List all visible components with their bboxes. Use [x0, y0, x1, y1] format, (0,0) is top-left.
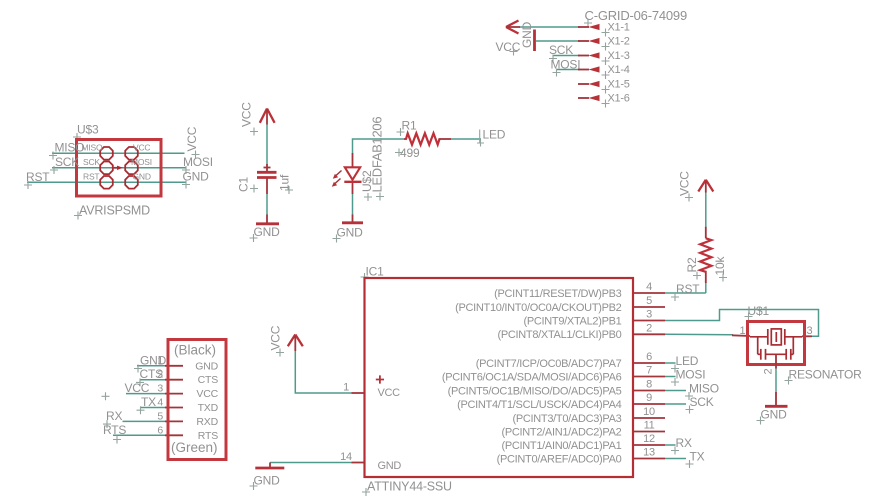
svg-text:R2: R2	[685, 257, 699, 272]
pin 3 lead	[802, 335, 812, 337]
svg-text:VCC: VCC	[125, 381, 150, 395]
svg-text:5: 5	[157, 410, 163, 422]
svg-text:RTS: RTS	[103, 423, 126, 437]
svg-text:GND: GND	[254, 474, 281, 488]
pin 13 PA0	[634, 447, 666, 459]
value AVRISPSMD	[74, 204, 150, 220]
emission arrow 1	[336, 171, 342, 176]
svg-text:SCK: SCK	[83, 157, 100, 167]
pin 3 VCC	[165, 393, 183, 395]
svg-text:4: 4	[646, 281, 652, 293]
pin 1 VCC	[343, 382, 364, 394]
value ATTINY44-SSU	[362, 480, 452, 497]
net label SCK (pin9)	[686, 395, 714, 414]
wire LED cathode to GND	[352, 194, 354, 215]
net label MISO (pin8)	[685, 382, 719, 401]
pin 12 PA1	[634, 433, 666, 445]
pin 2 lead	[775, 354, 777, 368]
pin 14 GND	[340, 451, 364, 463]
pad 6 GND	[125, 176, 138, 189]
svg-text:13: 13	[643, 447, 655, 459]
net label MOSI (pin7)	[671, 368, 705, 387]
wire net SCK pin9	[665, 403, 686, 405]
svg-text:3: 3	[646, 309, 652, 321]
net label CTS	[136, 367, 163, 386]
wire net RX row5	[123, 420, 169, 422]
svg-text:10: 10	[643, 406, 655, 418]
ground GND (LED)	[333, 215, 364, 243]
wire net CTS row2	[140, 379, 168, 381]
net label VCC (rotated)	[185, 126, 200, 158]
svg-text:X1-4: X1-4	[608, 64, 630, 76]
svg-text:RTS: RTS	[198, 430, 218, 442]
net XTAL2 wire pin3 to resonator pin3	[665, 310, 819, 337]
svg-text:LEDFAB1206: LEDFAB1206	[370, 117, 385, 193]
svg-text:1: 1	[343, 382, 349, 394]
net label MOSI	[182, 155, 213, 174]
net label MISO	[49, 141, 84, 160]
supply VCC (arrow, R2)	[678, 171, 714, 202]
svg-text:RXD: RXD	[196, 416, 218, 428]
svg-text:MOSI: MOSI	[676, 368, 706, 382]
resonator U$1	[732, 304, 862, 385]
wire net TX pin13	[665, 458, 686, 460]
net label LED (pin6)	[671, 354, 699, 373]
net label SCK	[50, 155, 79, 174]
svg-text:8: 8	[646, 379, 652, 391]
capacitor C1	[237, 164, 294, 194]
pin 5 PB2	[634, 295, 666, 307]
wire net LED pin6	[665, 362, 676, 364]
pin 7 PA6	[634, 365, 666, 377]
svg-text:AVRISPSMD: AVRISPSMD	[79, 204, 150, 218]
svg-text:GND: GND	[195, 360, 218, 372]
svg-text:GND: GND	[761, 408, 788, 422]
svg-text:(PCINT3/T0/ADC3)PA3: (PCINT3/T0/ADC3)PA3	[512, 413, 621, 425]
svg-text:RX: RX	[106, 409, 122, 423]
pin X1-2	[578, 36, 630, 51]
wire net MISO pin8	[665, 390, 686, 392]
wire C1 to GND	[266, 194, 268, 215]
svg-text:(Black): (Black)	[174, 343, 216, 358]
svg-text:VCC: VCC	[269, 325, 283, 350]
plus mark VCC	[376, 375, 384, 383]
svg-text:U$1: U$1	[748, 304, 770, 318]
pin 6 RTS	[165, 434, 183, 436]
svg-text:(PCINT9/XTAL2)PB1: (PCINT9/XTAL2)PB1	[523, 316, 621, 328]
pad 1 MISO	[100, 147, 113, 160]
pin 9 PA4	[634, 392, 666, 404]
svg-text:RST: RST	[676, 282, 700, 296]
net label TX	[137, 395, 157, 414]
svg-text:12: 12	[643, 433, 655, 445]
pin 1 lead	[732, 334, 750, 337]
svg-text:5: 5	[646, 295, 652, 307]
pin arrow row2	[113, 166, 123, 170]
wire VCC to pin 1	[295, 351, 351, 393]
net label VCC	[102, 381, 150, 400]
LED triangle	[345, 167, 360, 180]
svg-text:RST: RST	[26, 170, 50, 184]
svg-text:SCK: SCK	[55, 155, 79, 169]
LED U$2 LEDFAB1206	[332, 117, 385, 201]
pin 6 PA7	[634, 351, 666, 363]
svg-text:10k: 10k	[713, 256, 727, 276]
pin 1 GND	[165, 365, 183, 367]
ground GND (resonator)	[757, 392, 788, 425]
wire R2 top to VCC	[705, 192, 707, 227]
svg-text:IC1: IC1	[366, 265, 385, 279]
svg-text:GND: GND	[254, 225, 281, 239]
net label RST	[24, 170, 50, 189]
supply VCC (arrow, C1)	[240, 102, 275, 136]
svg-text:R1: R1	[402, 119, 417, 133]
svg-text:TX: TX	[141, 395, 156, 409]
net label RX (pin12)	[671, 436, 692, 455]
pin 4 TXD	[165, 407, 183, 409]
value RESONATOR	[785, 368, 863, 385]
net label GND	[182, 170, 209, 189]
svg-text:CTS: CTS	[198, 374, 219, 386]
supply VCC (rotated arrow, X1-1)	[496, 21, 521, 56]
ground GND (pin 14)	[250, 463, 285, 491]
svg-text:RX: RX	[676, 436, 692, 450]
net label MOSI	[551, 58, 581, 77]
svg-text:GND: GND	[337, 226, 364, 240]
svg-text:TX: TX	[690, 450, 705, 464]
pin 3 PB1	[634, 309, 666, 321]
pin 4 PB3	[634, 281, 666, 293]
svg-text:2: 2	[763, 369, 775, 375]
wire net SCK to X1-3	[553, 55, 580, 57]
wire net RX pin12	[665, 444, 676, 446]
svg-text:VCC: VCC	[133, 143, 150, 153]
wire VCC to C1	[266, 125, 268, 166]
svg-text:VCC: VCC	[678, 171, 692, 196]
svg-text:GND: GND	[378, 460, 402, 472]
svg-text:(Green): (Green)	[171, 440, 218, 455]
svg-text:CTS: CTS	[140, 367, 164, 381]
svg-text:11: 11	[644, 420, 655, 432]
pin X1-3	[578, 50, 630, 65]
ground GND (rotated, X1-2)	[520, 21, 535, 51]
body U$1	[748, 322, 805, 365]
svg-text:2: 2	[646, 322, 652, 334]
svg-text:GND: GND	[520, 21, 534, 48]
pin X1-1	[578, 22, 630, 37]
pad 4 MOSI	[125, 162, 138, 175]
wire net VCC row3	[126, 393, 168, 395]
svg-text:MOSI: MOSI	[183, 155, 213, 169]
net label TX (pin13)	[686, 450, 705, 469]
svg-text:(PCINT5/OC1B/MISO/DO/ADC5)PA5: (PCINT5/OC1B/MISO/DO/ADC5)PA5	[448, 386, 622, 398]
svg-text:7: 7	[646, 365, 652, 377]
wire R2 bottom	[705, 282, 707, 293]
wire net RST row3	[27, 181, 186, 183]
svg-text:X1-5: X1-5	[608, 79, 630, 91]
svg-text:(PCINT11/RESET/DW)PB3: (PCINT11/RESET/DW)PB3	[494, 288, 622, 300]
svg-text:MOSI: MOSI	[551, 58, 581, 72]
wire resonator pin2 to GND	[775, 369, 777, 393]
svg-text:MISO: MISO	[689, 382, 719, 396]
ISP header U$3 AVRISPSMD	[24, 123, 213, 220]
svg-text:VCC: VCC	[240, 102, 254, 127]
svg-text:ATTINY44-SSU: ATTINY44-SSU	[367, 480, 452, 494]
svg-text:(PCINT7/ICP/OC0B/ADC7)PA7: (PCINT7/ICP/OC0B/ADC7)PA7	[476, 358, 622, 370]
svg-text:LED: LED	[483, 128, 506, 142]
supply VCC (arrow, pin 1)	[269, 325, 303, 356]
svg-text:GND: GND	[133, 172, 151, 182]
pin 11 PA2	[634, 420, 666, 432]
net XTAL1 wire pin2 to resonator pin1	[665, 333, 733, 336]
LED cathode bar	[344, 181, 361, 183]
body FTDI	[168, 340, 226, 460]
svg-text:9: 9	[646, 392, 652, 404]
wire net MISO row1	[52, 152, 185, 154]
pin 2 PB0	[634, 322, 666, 334]
body IC1	[365, 278, 634, 477]
svg-text:VCC: VCC	[196, 388, 218, 400]
pad 2 VCC	[125, 147, 138, 160]
wire pin 14 to GND	[270, 462, 352, 464]
resistor R2	[685, 227, 727, 284]
net label SCK	[549, 43, 573, 63]
svg-text:U$3: U$3	[77, 123, 99, 137]
pin X1-4	[578, 64, 630, 79]
microcontroller IC1 ATTINY44-SSU	[340, 265, 665, 497]
net label RTS	[103, 423, 126, 444]
FTDI header J1	[102, 340, 227, 460]
svg-text:X1-3: X1-3	[608, 50, 630, 62]
pad 5 RST	[100, 176, 113, 189]
svg-text:VCC: VCC	[378, 387, 401, 399]
pin X1-5	[578, 79, 630, 94]
net label RST	[671, 282, 700, 301]
svg-text:SCK: SCK	[690, 395, 714, 409]
pin 10 PA3	[634, 406, 666, 418]
svg-text:LED: LED	[676, 354, 699, 368]
svg-text:(PCINT2/AIN1/ADC2)PA2: (PCINT2/AIN1/ADC2)PA2	[501, 427, 621, 439]
svg-text:MISO: MISO	[82, 143, 104, 153]
origin cross U$3	[73, 133, 81, 141]
wire net RTS row6	[113, 434, 168, 436]
svg-text:(PCINT0/AREF/ADC0)PA0: (PCINT0/AREF/ADC0)PA0	[497, 454, 622, 466]
svg-text:RST: RST	[83, 172, 99, 182]
wire net GND to X1-2	[536, 40, 580, 42]
svg-text:6: 6	[157, 424, 163, 436]
svg-text:(PCINT4/T1/SCL/USCK/ADC4)PA4: (PCINT4/T1/SCL/USCK/ADC4)PA4	[457, 399, 622, 411]
svg-text:(PCINT8/XTAL1/CLKI)PB0: (PCINT8/XTAL1/CLKI)PB0	[497, 329, 621, 341]
net label RX	[103, 409, 122, 428]
svg-text:3: 3	[157, 383, 163, 395]
wire net SCK row2	[52, 167, 186, 169]
net RST wire pin4 to R2	[665, 292, 706, 294]
svg-text:(PCINT10/INT0/OC0A/CKOUT)PB2: (PCINT10/INT0/OC0A/CKOUT)PB2	[455, 302, 622, 314]
wire net TX row4	[140, 407, 168, 409]
pad 3 SCK	[100, 162, 113, 175]
wire LED anode to R1	[353, 139, 405, 154]
svg-text:MISO: MISO	[55, 141, 85, 155]
svg-text:14: 14	[340, 451, 352, 463]
svg-text:(PCINT6/OC1A/SDA/MOSI/ADC6)PA6: (PCINT6/OC1A/SDA/MOSI/ADC6)PA6	[442, 372, 622, 384]
svg-text:TXD: TXD	[198, 402, 219, 414]
svg-text:C1: C1	[237, 177, 251, 192]
resistor R1	[395, 119, 451, 161]
svg-text:6: 6	[646, 351, 652, 363]
svg-text:X1-6: X1-6	[608, 93, 630, 105]
wire net MOSI pin7	[665, 376, 676, 378]
pin 5 RXD	[165, 420, 183, 422]
svg-text:MOSI: MOSI	[131, 157, 152, 167]
wire R1 to LED net label	[451, 138, 481, 140]
svg-text:3: 3	[807, 325, 813, 337]
svg-text:RESONATOR: RESONATOR	[789, 368, 863, 382]
svg-text:GND: GND	[140, 353, 167, 367]
svg-text:C-GRID-06-74099: C-GRID-06-74099	[585, 8, 688, 23]
origin cross X1	[584, 19, 592, 27]
pin 2 CTS	[165, 379, 183, 381]
svg-text:4: 4	[157, 397, 163, 409]
pin 8 PA5	[634, 379, 666, 391]
wire net VCC to X1-1	[519, 26, 580, 28]
net label LED	[477, 128, 506, 147]
svg-text:VCC: VCC	[185, 126, 199, 151]
svg-text:1: 1	[740, 325, 746, 337]
svg-text:X1-2: X1-2	[608, 36, 630, 48]
connector X1 C-GRID-06-74099	[496, 8, 688, 108]
wire net MOSI to X1-4	[557, 69, 580, 71]
pin X1-6	[578, 93, 630, 108]
emission arrow 2	[335, 179, 341, 184]
ground GND (C1)	[250, 215, 281, 243]
svg-text:(PCINT1/AIN0/ADC1)PA1: (PCINT1/AIN0/ADC1)PA1	[501, 440, 621, 452]
body U$3	[77, 140, 162, 197]
crystal internals	[750, 329, 802, 360]
wire net GND row1	[137, 365, 168, 367]
svg-text:X1-1: X1-1	[608, 22, 630, 34]
net label GND	[134, 353, 167, 372]
